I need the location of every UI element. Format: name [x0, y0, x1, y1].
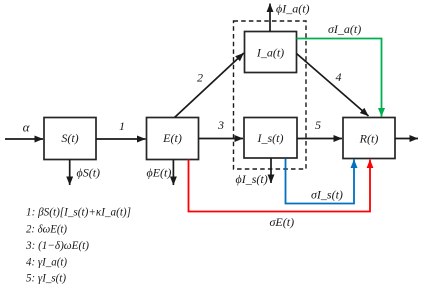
svg-text:σE(t): σE(t)	[270, 215, 295, 229]
arrow 2: E to I_a (diagonal)	[175, 53, 244, 118]
legend line 5	[26, 271, 66, 285]
svg-text:E(t): E(t)	[162, 131, 182, 145]
svg-text:σI_a(t): σI_a(t)	[328, 22, 361, 36]
svg-text:3: 3	[217, 118, 224, 132]
svg-text:1: 1	[119, 119, 125, 133]
svg-text:5: 5	[315, 118, 321, 132]
svg-text:2: 2	[197, 71, 203, 85]
svg-text:ϕS(t): ϕS(t)	[77, 166, 101, 180]
svg-text:4: 4	[336, 70, 342, 84]
arrow phi S(t) down from S	[70, 160, 100, 186]
svg-text:3: (1−δ)ωE(t): 3: (1−δ)ωE(t)	[25, 238, 89, 252]
blue feedback path sigma I_s(t) from I_s to R	[286, 159, 355, 204]
legend line 1	[26, 205, 131, 219]
arrow phi E(t) down from E	[147, 160, 174, 186]
svg-text:I_a(t): I_a(t)	[256, 46, 284, 60]
red feedback path sigma E(t) from E to R	[189, 160, 371, 230]
svg-text:ϕI_s(t): ϕI_s(t)	[236, 172, 268, 186]
arrow phi I_s(t) down from I_s	[236, 158, 272, 186]
box S(t)	[44, 118, 96, 160]
svg-text:R(t): R(t)	[359, 132, 379, 146]
arrow 5: I_s to R	[297, 118, 342, 139]
svg-text:α: α	[23, 120, 31, 135]
arrow phi I_a(t) up from I_a	[270, 2, 310, 32]
legend line 3	[25, 238, 89, 252]
svg-text:σI_s(t): σI_s(t)	[311, 188, 343, 202]
arrow out of R	[395, 138, 418, 140]
dashed group box around I_a and I_s	[234, 21, 307, 169]
box E(t)	[147, 118, 199, 160]
arrow 3: E to I_s	[199, 118, 244, 139]
svg-text:1: βS(t)[I_s(t)+κI_a(t)]: 1: βS(t)[I_s(t)+κI_a(t)]	[26, 205, 131, 219]
svg-text:S(t): S(t)	[61, 131, 78, 145]
box I_a(t)	[245, 32, 297, 73]
svg-text:ϕI_a(t): ϕI_a(t)	[276, 2, 310, 16]
svg-text:4: γI_a(t): 4: γI_a(t)	[26, 255, 67, 269]
svg-text:2: δωE(t): 2: δωE(t)	[26, 222, 67, 236]
box I_s(t)	[244, 118, 297, 159]
arrow alpha into S	[5, 120, 43, 139]
legend line 4	[26, 255, 67, 269]
arrow 4: I_a to R (diagonal)	[297, 54, 369, 117]
legend line 2	[26, 222, 67, 236]
box R(t)	[343, 118, 395, 159]
arrow 1: S to E	[96, 119, 146, 139]
svg-text:I_s(t): I_s(t)	[257, 131, 284, 145]
green feedback path sigma I_a(t) from I_a to R	[297, 22, 382, 117]
svg-text:ϕE(t): ϕE(t)	[147, 166, 172, 180]
svg-text:5: γI_s(t): 5: γI_s(t)	[26, 271, 66, 285]
